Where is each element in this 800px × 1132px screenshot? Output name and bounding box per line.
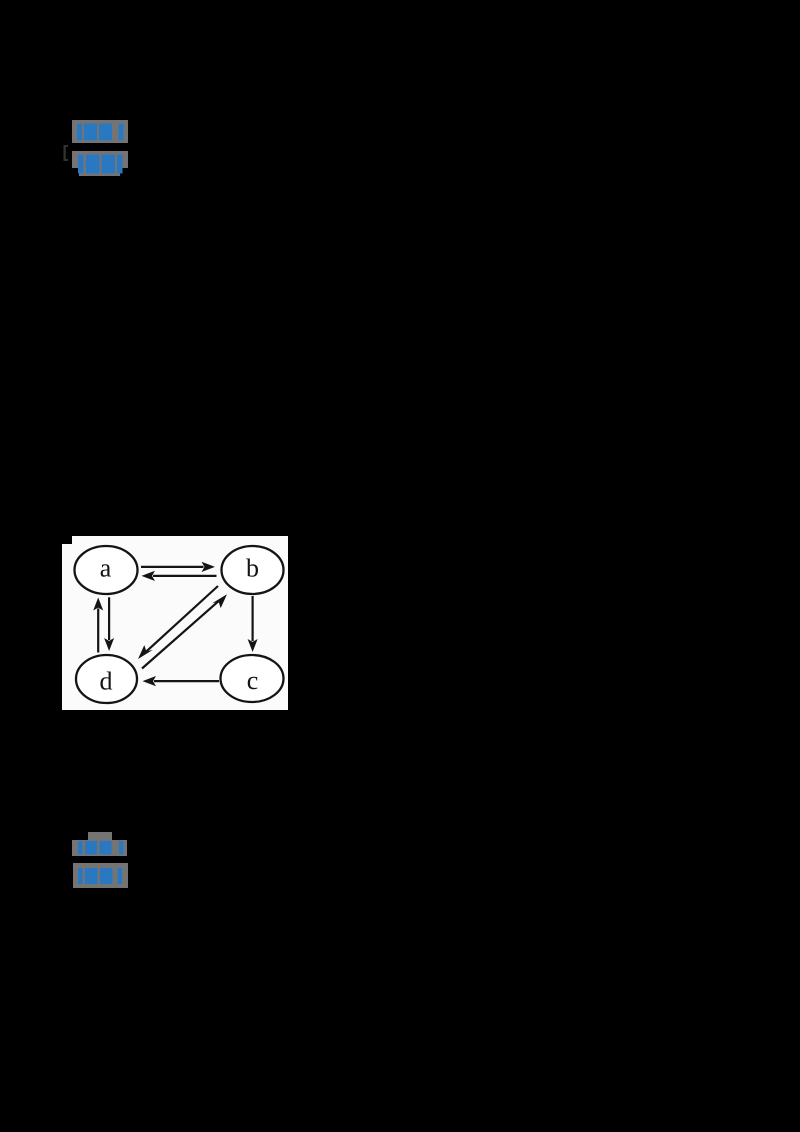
diagram image background: [62, 536, 288, 710]
highlight box detail2: [73, 863, 128, 888]
node b: [222, 546, 284, 594]
label detail2 blue text: [78, 868, 122, 884]
label answer1 blue text: [77, 124, 124, 141]
arrow d to b (diagonal up-right): [142, 594, 227, 668]
arrow b to a: [142, 571, 217, 581]
highlight box detail1: [72, 832, 127, 856]
node a: [75, 546, 138, 594]
node c: [221, 655, 284, 702]
faint bracket mark: [64, 145, 69, 161]
highlight box answer1: [72, 120, 128, 143]
arrow a to d (down): [104, 597, 114, 651]
arrow d to a (up): [93, 598, 103, 653]
highlight box answer2: [72, 151, 128, 176]
label detail1 blue text: [78, 841, 124, 855]
arrow c to d (left): [143, 676, 220, 686]
arrow b to c (down): [248, 596, 258, 652]
label answer2 blue text: [78, 155, 123, 174]
arrow b to d (diagonal down-left): [138, 586, 218, 659]
arrow a to b: [141, 562, 215, 572]
node d: [76, 655, 137, 703]
